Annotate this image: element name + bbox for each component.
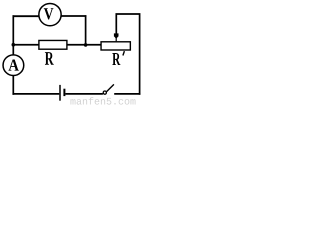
switch blade bbox=[107, 84, 114, 91]
wire: wiper stub up and over to right side bbox=[116, 14, 139, 95]
rheostat wiper lower stub bbox=[115, 38, 117, 42]
ammeter label A bbox=[9, 60, 19, 71]
prime mark on R' bbox=[123, 51, 125, 55]
wire: bottom horizontal from corner to battery bbox=[12, 93, 59, 95]
watermark bbox=[70, 97, 135, 104]
battery short plate bbox=[63, 89, 65, 96]
rheostat R' box bbox=[101, 42, 130, 50]
voltmeter label V bbox=[44, 8, 54, 19]
wire: bottom horizontal from switch to bottom-right corner bbox=[114, 93, 140, 95]
wire: top horizontal from voltmeter to right drop bbox=[61, 15, 87, 17]
switch S1 pivot circle bbox=[103, 91, 106, 94]
node: left junction dot bbox=[12, 43, 16, 47]
wire: middle horizontal from resistor to rheostat bbox=[67, 44, 101, 46]
resistor label R bbox=[45, 52, 54, 65]
node: middle junction dot bbox=[84, 43, 88, 47]
wire: bottom horizontal from battery to switch bbox=[65, 93, 103, 95]
voltmeter U1 circle bbox=[39, 3, 61, 25]
resistor R box bbox=[39, 40, 67, 49]
wire: middle horizontal from left junction to resistor R bbox=[13, 44, 39, 46]
rheostat label R' bbox=[112, 53, 120, 65]
wire: vertical drop to middle junction bbox=[85, 15, 87, 45]
wire: ammeter bottom stub down to bottom-left corner bbox=[12, 76, 14, 95]
ammeter U2 circle bbox=[3, 55, 24, 76]
battery long plate bbox=[59, 85, 61, 101]
wire: top-left horizontal from corner to voltmeter bbox=[13, 15, 40, 17]
wire: left vertical from top corner down to ammeter top bbox=[12, 15, 14, 55]
rheostat wiper arrow bbox=[114, 33, 119, 38]
